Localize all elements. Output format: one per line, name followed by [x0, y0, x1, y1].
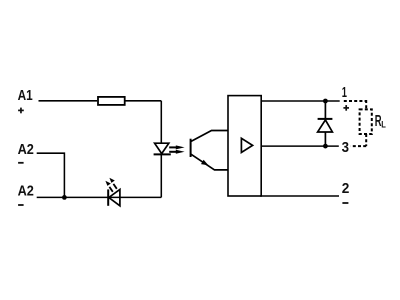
wire resistor to corner: [126, 100, 162, 102]
plus sign under terminal 1: [343, 105, 349, 111]
dashed lead from terminal 1 to load: [344, 100, 366, 109]
junction dot on A2 rail: [62, 195, 67, 200]
junction node on wire 1: [323, 99, 328, 104]
wire A2 lower rail: [37, 196, 162, 198]
phototransistor Q1: [191, 131, 228, 170]
plus sign under A1: [18, 108, 24, 114]
output wire 3: [261, 145, 339, 147]
amplifier box U1: [228, 96, 261, 196]
svg-text:A2: A2: [18, 142, 34, 158]
resistor R1: [98, 97, 125, 105]
light arrows from LED to phototransistor: [169, 145, 184, 153]
load label RL: [375, 113, 386, 131]
wire A1 to resistor: [39, 100, 98, 102]
free-wheeling diode D3: [318, 101, 333, 146]
terminal label A1: [18, 88, 33, 104]
optocoupler LED D1: [154, 143, 171, 154]
emission arrows of indicator LED: [105, 178, 116, 192]
minus sign under terminal 2: [342, 202, 348, 204]
load resistor RL (dashed): [360, 109, 372, 134]
terminal label A2 (lower): [18, 184, 34, 200]
terminal label A2 (upper): [18, 142, 34, 158]
svg-text:L: L: [381, 120, 386, 131]
svg-text:3: 3: [342, 140, 349, 156]
output wire 1: [261, 100, 340, 102]
junction node on wire 3: [323, 144, 328, 149]
svg-text:1: 1: [342, 85, 347, 101]
amplifier triangle: [241, 138, 252, 152]
indicator LED D2: [108, 189, 120, 205]
wire vertical to optocoupler LED: [160, 101, 162, 143]
minus sign under lower A2: [18, 204, 24, 206]
svg-text:A1: A1: [18, 88, 33, 104]
minus sign under upper A2: [18, 162, 24, 164]
wire A2 upper to corner: [37, 153, 65, 197]
svg-text:A2: A2: [18, 184, 34, 200]
svg-text:2: 2: [342, 181, 350, 197]
dashed lead from load to terminal 3: [351, 134, 367, 146]
output wire 2: [260, 195, 339, 197]
wire LED cathode down: [160, 154, 162, 197]
